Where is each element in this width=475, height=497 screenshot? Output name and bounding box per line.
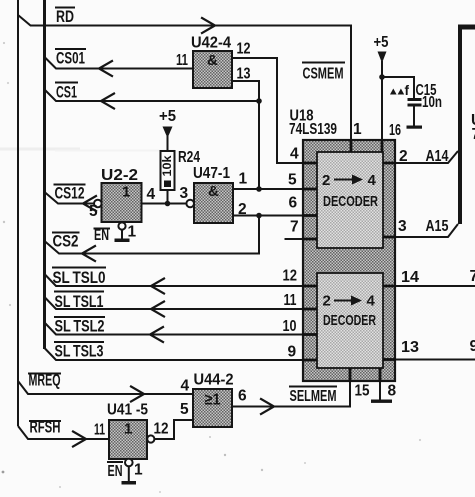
pin 4 of U44 bbox=[181, 378, 190, 395]
svg-text:8: 8 bbox=[388, 383, 397, 400]
svg-text:2: 2 bbox=[323, 293, 331, 310]
svg-text:4: 4 bbox=[290, 146, 299, 163]
gate U41-5 bbox=[109, 420, 147, 459]
pin 11 of U41 bbox=[94, 422, 105, 439]
wire: U42 pin12 to U18 pin4 (CSMEM net) bbox=[232, 58, 303, 163]
pin 2 label of U18 bbox=[399, 148, 408, 165]
svg-text:SELMEM: SELMEM bbox=[290, 388, 337, 405]
wire: U18 pin13 to right edge bbox=[396, 359, 475, 361]
pin 5 bubble of U2 bbox=[94, 200, 102, 208]
pin 16 label of U18 bbox=[389, 122, 401, 139]
pin stub 13 bbox=[383, 358, 396, 361]
svg-text:SL TSL2: SL TSL2 bbox=[55, 317, 105, 336]
pin 9 label of U18 bbox=[288, 344, 297, 361]
node CS1 label bbox=[55, 83, 78, 102]
wire: A14 net from U18 pin2 to right bus bbox=[396, 151, 458, 163]
right bus (A14/A15) bbox=[458, 25, 475, 225]
svg-text:10k: 10k bbox=[162, 155, 174, 177]
svg-text:6: 6 bbox=[238, 388, 247, 405]
pin 13 of U42 bbox=[237, 66, 251, 83]
node CS2 label bbox=[52, 232, 80, 251]
power +5 above U18 pin16 bbox=[374, 34, 389, 140]
pin 11 of U42 bbox=[176, 52, 188, 69]
pin stub 3 bbox=[383, 236, 396, 239]
pin stub 8 bbox=[379, 368, 382, 382]
pin stub 16 bbox=[381, 140, 384, 152]
svg-text:CS01: CS01 bbox=[56, 49, 85, 68]
ddf symbol bbox=[390, 83, 410, 98]
node CS01 label bbox=[55, 49, 86, 68]
pin 12 label of U18 bbox=[283, 268, 298, 285]
node SELMEM label bbox=[289, 387, 337, 406]
pin stub 9 bbox=[302, 359, 317, 362]
label U41-5 bbox=[107, 402, 148, 419]
pin 5 of U44 bbox=[180, 401, 189, 418]
svg-text:12: 12 bbox=[237, 41, 251, 58]
label U18 bbox=[290, 108, 314, 125]
svg-text:1: 1 bbox=[122, 184, 130, 201]
pin 13 label of U18 bbox=[401, 339, 419, 356]
svg-text:CS1: CS1 bbox=[56, 83, 77, 102]
gate U42-4 bbox=[193, 51, 232, 88]
svg-text:CS2: CS2 bbox=[53, 232, 79, 251]
svg-text:≥1: ≥1 bbox=[205, 392, 221, 409]
pin 3 label of U18 bbox=[398, 218, 407, 235]
svg-text:DECODER: DECODER bbox=[323, 193, 378, 210]
wire: CS2 net bbox=[45, 216, 260, 254]
svg-text:15: 15 bbox=[355, 383, 370, 400]
node RFSH label bbox=[29, 418, 61, 437]
svg-text:A15: A15 bbox=[426, 218, 449, 235]
node RD label bbox=[55, 7, 75, 26]
wire: CS12 net bbox=[45, 192, 95, 204]
node MREQ label bbox=[28, 371, 61, 390]
wire: R24 bottom lead to node bbox=[167, 190, 169, 204]
wire: A15 net from U18 pin3 to right bus bbox=[396, 224, 458, 237]
svg-text:2: 2 bbox=[399, 148, 408, 165]
pin stub 2 bbox=[383, 162, 396, 165]
EN/ground of U2 bbox=[94, 222, 137, 244]
decoder block 2 bbox=[317, 273, 383, 368]
decoder block 1 bbox=[317, 152, 383, 248]
svg-text:1: 1 bbox=[134, 462, 143, 479]
svg-text:&: & bbox=[207, 52, 218, 69]
svg-text:&: & bbox=[208, 183, 219, 200]
power +5 above R24 bbox=[159, 108, 176, 151]
pin stub 5 bbox=[302, 188, 317, 191]
svg-text:4: 4 bbox=[368, 172, 377, 189]
label R24 bbox=[178, 149, 200, 166]
svg-text:U2-2: U2-2 bbox=[101, 167, 138, 184]
wire: SLTSL0 net bbox=[45, 274, 304, 286]
svg-text:4: 4 bbox=[181, 378, 190, 395]
ground at U18 pin 8 bbox=[371, 382, 392, 403]
svg-text:EN: EN bbox=[94, 227, 109, 244]
node CS12 label bbox=[54, 184, 86, 203]
svg-text:4: 4 bbox=[367, 293, 376, 310]
svg-text:12: 12 bbox=[283, 268, 298, 285]
pin stub 4 bbox=[302, 162, 317, 165]
value 10n bbox=[422, 94, 442, 111]
node CSMEM label bbox=[302, 63, 345, 83]
arrow on CS1 wire bbox=[101, 94, 114, 109]
pin 12 of U41 bbox=[154, 421, 169, 438]
junction CS1/pin13 bbox=[256, 98, 262, 104]
pin 14 label of U18 bbox=[401, 269, 419, 286]
arrow on RD wire bbox=[202, 18, 215, 33]
IC U18 74LS139 outer body bbox=[303, 140, 395, 381]
svg-text:3: 3 bbox=[398, 218, 407, 235]
svg-text:U42-4: U42-4 bbox=[191, 35, 231, 52]
pin 4 label of U2 bbox=[147, 186, 156, 203]
svg-text:1: 1 bbox=[239, 171, 248, 188]
gate U44-2 bbox=[193, 389, 232, 427]
wire: RFSH net bbox=[18, 426, 109, 439]
EN/ground of U41 bbox=[107, 459, 143, 485]
svg-text:U41 -5: U41 -5 bbox=[107, 402, 148, 419]
wire: U2 pin4 to U47 pin3 bbox=[142, 203, 187, 205]
bus line 1 (left vertical) bbox=[17, 0, 19, 426]
pin stub 11 bbox=[302, 308, 317, 311]
svg-text:7: 7 bbox=[290, 219, 299, 236]
arrow on SELMEM wire bbox=[261, 399, 274, 414]
svg-text:10: 10 bbox=[283, 318, 297, 335]
svg-text:11: 11 bbox=[176, 52, 188, 69]
arrow on SLTSL2 wire bbox=[150, 327, 163, 342]
svg-text:3: 3 bbox=[180, 185, 189, 202]
bus line 2 (second vertical) bbox=[43, 0, 46, 349]
pin 5 label of U2 bbox=[89, 203, 98, 220]
wire: RD net bbox=[18, 15, 351, 140]
pin 6 label of U18 bbox=[289, 195, 298, 212]
svg-text:4: 4 bbox=[147, 186, 156, 203]
node SLTSL1 label bbox=[54, 292, 104, 312]
pin 2 of U47 bbox=[238, 201, 247, 218]
wire: U47 pin1 to U18 pin5 bbox=[233, 188, 303, 190]
label 74LS139 bbox=[289, 121, 337, 138]
capacitor C15 bbox=[408, 98, 422, 126]
partial pin 7 label at right edge bbox=[470, 268, 475, 285]
wire: SLTSL2 net bbox=[45, 323, 304, 335]
svg-text:CS12: CS12 bbox=[55, 184, 85, 203]
node SLTSL3 label bbox=[54, 342, 104, 361]
svg-text:16: 16 bbox=[389, 122, 401, 139]
partial pin 9 label at right edge bbox=[470, 338, 475, 355]
junction pin13/U47pin1/U18pin5 bbox=[256, 186, 262, 192]
svg-text:U47-1: U47-1 bbox=[193, 165, 230, 182]
label C15 bbox=[416, 82, 437, 99]
svg-text:+5: +5 bbox=[159, 108, 176, 125]
svg-text:5: 5 bbox=[180, 401, 189, 418]
svg-text:+5: +5 bbox=[374, 34, 389, 51]
pin 1 label of U18 bbox=[353, 121, 362, 138]
pin stub 6 bbox=[302, 214, 317, 217]
node SLTSL0 label bbox=[52, 268, 106, 288]
pin 3 bubble of U47 bbox=[186, 200, 194, 208]
arrow on SLTSL1 wire bbox=[151, 302, 164, 317]
arrow on MREQ wire bbox=[131, 387, 144, 402]
svg-text:U44-2: U44-2 bbox=[194, 372, 234, 389]
svg-text:SL TSL1: SL TSL1 bbox=[55, 292, 104, 311]
svg-text:7: 7 bbox=[472, 126, 475, 143]
svg-text:14: 14 bbox=[401, 269, 419, 286]
svg-text:9: 9 bbox=[288, 344, 297, 361]
junction +5/C15 bbox=[379, 74, 385, 80]
partial label U at right edge bbox=[471, 112, 475, 143]
pin stub 15 bbox=[349, 368, 352, 382]
pin stub 14 bbox=[383, 285, 396, 288]
svg-text:1: 1 bbox=[124, 421, 132, 438]
gate U2-2 bbox=[102, 183, 142, 222]
svg-text:11: 11 bbox=[94, 422, 105, 439]
pin 11 label of U18 bbox=[284, 292, 297, 309]
svg-text:DECODER: DECODER bbox=[323, 312, 376, 329]
svg-text:RD: RD bbox=[56, 7, 74, 26]
arrow on CS01 wire bbox=[99, 61, 112, 76]
wire: MREQ net bbox=[18, 381, 193, 394]
svg-text:R24: R24 bbox=[178, 149, 200, 166]
pin 1 of U47 bbox=[239, 171, 248, 188]
svg-text:6: 6 bbox=[289, 195, 298, 212]
pin 6 of U44 bbox=[238, 388, 247, 405]
svg-text:f: f bbox=[405, 83, 410, 98]
wire: +5 to C15 bbox=[382, 77, 414, 98]
junction R24/U2 pin4 bbox=[165, 201, 171, 207]
wire: SLTSL3 net bbox=[45, 348, 304, 360]
wire: SLTSL1 net bbox=[45, 297, 304, 309]
wire: CS1 net bbox=[45, 90, 260, 102]
pin 12 bubble of U41 bbox=[147, 435, 154, 442]
svg-text:10n: 10n bbox=[422, 94, 442, 111]
svg-text:5: 5 bbox=[89, 203, 98, 220]
svg-text:13: 13 bbox=[237, 66, 251, 83]
svg-text:CSMEM: CSMEM bbox=[303, 66, 344, 83]
svg-text:SL TSL3: SL TSL3 bbox=[55, 342, 104, 361]
svg-text:2: 2 bbox=[322, 172, 330, 189]
svg-text:SL TSL0: SL TSL0 bbox=[53, 268, 106, 287]
svg-text:13: 13 bbox=[401, 339, 419, 356]
label U44-2 bbox=[194, 372, 234, 389]
arrow on SLTSL0 wire bbox=[151, 279, 164, 294]
wire: U18 pin14 to right edge bbox=[396, 285, 475, 287]
svg-text:1: 1 bbox=[128, 224, 137, 241]
arrow on RFSH wire bbox=[73, 432, 86, 447]
pin 5 label of U18 bbox=[288, 172, 297, 189]
svg-text:EN: EN bbox=[108, 463, 123, 480]
pin 10 label of U18 bbox=[283, 318, 297, 335]
wire: U42 pin13 down to CS1/U47 junction bbox=[232, 81, 259, 189]
label U47-1 bbox=[193, 165, 230, 182]
wire: U47 pin2 to U18 pin6 bbox=[233, 215, 303, 217]
svg-text:A14: A14 bbox=[426, 148, 449, 165]
pin 4 label of U18 bbox=[290, 146, 299, 163]
node SLTSL2 label bbox=[54, 317, 105, 336]
pin 3 label of U47 bbox=[180, 185, 189, 202]
arrow on CS12 wire bbox=[83, 196, 96, 211]
svg-text:74LS139: 74LS139 bbox=[289, 121, 337, 138]
arrow on CS2 wire bbox=[82, 246, 95, 261]
pin stub 7 bbox=[302, 238, 317, 241]
resistor R24 bbox=[161, 151, 175, 190]
wire: CS01 net bbox=[45, 57, 193, 69]
wire: U18 pin7 stub bbox=[285, 238, 304, 240]
svg-text:7: 7 bbox=[470, 268, 475, 285]
wire: SELMEM net from U44 pin6 to U18 pin15 bbox=[232, 381, 350, 407]
pin stub 10 bbox=[302, 333, 317, 336]
gate U47-1 bbox=[194, 183, 233, 223]
pin 12 of U42 bbox=[237, 41, 251, 58]
node A15 label bbox=[426, 218, 449, 235]
svg-text:1: 1 bbox=[353, 121, 362, 138]
node A14 label bbox=[426, 148, 449, 165]
svg-text:5: 5 bbox=[288, 172, 297, 189]
pin 8 label of U18 bbox=[388, 383, 397, 400]
svg-text:9: 9 bbox=[470, 338, 475, 355]
label U42-4 bbox=[191, 35, 231, 52]
wire: U41 pin12 to U44 pin5 bbox=[155, 420, 194, 439]
label U2-2 bbox=[101, 167, 138, 184]
pin stub 1 bbox=[350, 140, 353, 152]
junction CS2/U47pin2 bbox=[256, 213, 262, 219]
pin stub 12 bbox=[302, 285, 317, 288]
svg-text:11: 11 bbox=[284, 292, 297, 309]
pin 15 label of U18 bbox=[355, 383, 370, 400]
svg-text:12: 12 bbox=[154, 421, 169, 438]
ground below C15 bbox=[407, 126, 423, 129]
pin 7 label of U18 bbox=[290, 219, 299, 236]
